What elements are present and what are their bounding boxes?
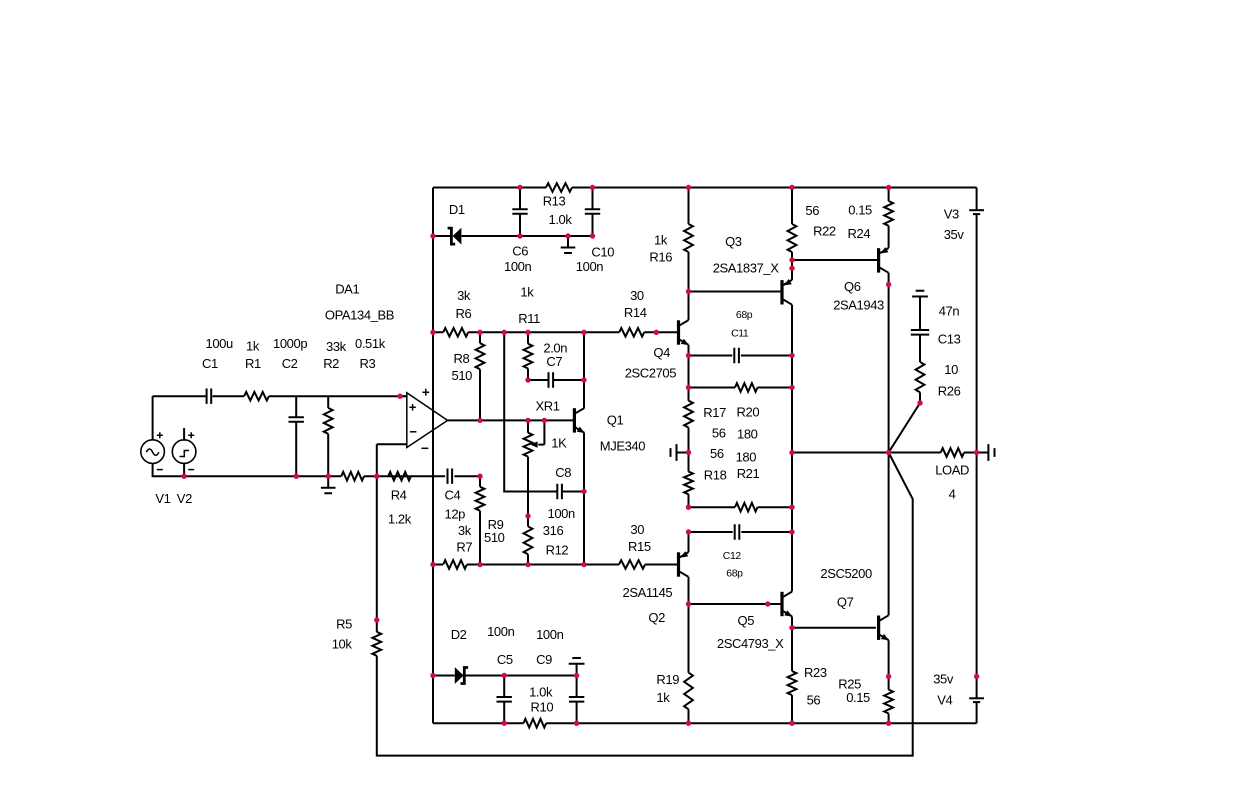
junction ground / D1 net — [565, 233, 570, 238]
junction C10 / D1 net — [590, 233, 595, 238]
wire: Q3 collector — [791, 305, 793, 356]
transistor Q4 2SC2705 — [625, 320, 689, 380]
svg-text:D1: D1 — [449, 202, 465, 217]
svg-text:35v: 35v — [933, 672, 954, 687]
junction right rail / V4 — [974, 674, 979, 679]
transistor Q5 2SC4793_X — [717, 592, 792, 651]
resistor R18 56 — [684, 446, 727, 507]
wire: op-amp output net — [480, 419, 573, 421]
svg-text:C12: C12 — [723, 550, 742, 562]
junction feedback divider — [374, 474, 379, 479]
resistor R13 1.0k — [543, 183, 573, 227]
resistor R23 56 — [788, 628, 827, 724]
svg-text:2SC5200: 2SC5200 — [820, 566, 872, 581]
resistor R3 0.51k — [341, 336, 385, 481]
wire: Q6 collector to output — [888, 273, 890, 453]
junction R5 top — [374, 617, 379, 622]
svg-text:100n: 100n — [536, 627, 563, 642]
wire: input signal top net — [153, 395, 407, 397]
svg-text:R4: R4 — [391, 487, 407, 502]
junction Q6 collector — [886, 282, 891, 287]
wire: Q4 collector — [688, 292, 690, 321]
junction driver column mid — [789, 450, 794, 455]
wire: Q2 emitter to C12 net — [688, 532, 690, 552]
junction C4 / R9 — [477, 474, 482, 479]
svg-text:10k: 10k — [332, 636, 353, 651]
svg-text:C5: C5 — [497, 652, 513, 667]
svg-text:180: 180 — [737, 426, 758, 441]
wire: Q6 base — [792, 259, 877, 261]
op-amp DA1 OPA134_BB — [325, 281, 480, 448]
svg-text:100n: 100n — [548, 506, 575, 521]
ground at D1/C6 net — [561, 236, 576, 253]
svg-text:100n: 100n — [504, 259, 531, 274]
resistor R15 30 — [619, 522, 651, 569]
svg-text:R21: R21 — [737, 466, 760, 481]
capacitor C7 2.0n — [528, 340, 584, 387]
svg-text:1K: 1K — [551, 435, 567, 450]
junction LOAD / right rail — [974, 450, 979, 455]
capacitor C5 100n — [487, 624, 514, 723]
junction XR1 / R12 — [525, 513, 530, 518]
svg-text:100n: 100n — [487, 624, 514, 639]
svg-text:R8: R8 — [454, 351, 470, 366]
svg-text:V1: V1 — [155, 491, 170, 506]
junction C2 return — [294, 474, 299, 479]
transistor Q6 2SA1943 — [833, 247, 888, 312]
svg-text:V4: V4 — [937, 693, 952, 708]
svg-text:R18: R18 — [704, 468, 727, 483]
wire: R5 to feedback divider node — [376, 476, 378, 620]
ground above C13 — [912, 291, 928, 297]
wire: Q7 collector to output — [888, 453, 890, 616]
wire: top +35V supply rail — [433, 187, 977, 189]
wire: D1 clamp net — [433, 235, 593, 237]
junction bias line / R8 — [477, 330, 482, 335]
svg-text:R2: R2 — [323, 356, 339, 371]
svg-text:R1: R1 — [245, 356, 261, 371]
resistor R17 56 — [684, 356, 726, 453]
junction R20 right — [789, 385, 794, 390]
junction mid rail / R12 — [525, 562, 530, 567]
svg-text:R20: R20 — [737, 404, 760, 419]
junction top rail / R22 — [789, 185, 794, 190]
junction C12 left — [686, 529, 691, 534]
svg-text:Q6: Q6 — [844, 279, 861, 294]
svg-text:R23: R23 — [804, 665, 827, 680]
junction Q5 base wire — [765, 601, 770, 606]
wire: right rail V3 to V4 — [976, 214, 978, 698]
source V1 sine — [141, 432, 171, 506]
junction bottom rail / R19 — [686, 721, 691, 726]
wire: Zobel branch to output node — [889, 403, 920, 453]
junction C8 / Q1 emitter — [581, 489, 586, 494]
junction C9 top — [574, 673, 579, 678]
svg-text:1k: 1k — [654, 233, 668, 248]
ground above C9 — [569, 658, 585, 664]
svg-text:R24: R24 — [848, 226, 871, 241]
junction bottom rail / R25 — [886, 721, 891, 726]
svg-text:0.15: 0.15 — [848, 203, 872, 218]
junction op-amp +input — [397, 394, 402, 399]
wire: Q2 collector to Q5 base — [689, 577, 781, 604]
junction R22 / Q6 base wire — [789, 257, 794, 262]
svg-text:33k: 33k — [326, 339, 347, 354]
svg-text:C8: C8 — [555, 465, 571, 480]
capacitor C12 68p — [689, 524, 793, 579]
svg-text:100n: 100n — [576, 259, 603, 274]
junction C11 right — [789, 353, 794, 358]
junction mid rail / Q1 emitter — [581, 562, 586, 567]
junction bottom rail / C5 — [502, 721, 507, 726]
svg-text:Q3: Q3 — [725, 234, 742, 249]
capacitor C9 100n — [536, 627, 584, 723]
transistor Q1 MJE340 — [573, 408, 645, 453]
junction Zobel R26 — [917, 400, 922, 405]
svg-text:30: 30 — [630, 288, 644, 303]
svg-text:0.51k: 0.51k — [355, 336, 386, 351]
wire: bottom mid rail R7/R15 — [433, 564, 677, 566]
junction R20 left — [686, 385, 691, 390]
junction Q4 base — [654, 330, 659, 335]
capacitor C10 100n — [576, 188, 614, 275]
svg-text:R16: R16 — [649, 250, 672, 265]
svg-text:R13: R13 — [543, 194, 566, 209]
capacitor C4 12p — [445, 469, 466, 522]
svg-text:1k: 1k — [656, 690, 670, 705]
svg-text:30: 30 — [630, 522, 644, 537]
wire: bias column C11 to C12 — [791, 356, 793, 533]
svg-text:1k: 1k — [520, 285, 534, 300]
svg-text:Q4: Q4 — [653, 345, 670, 360]
junction output node — [886, 450, 891, 455]
svg-text:Q7: Q7 — [837, 595, 854, 610]
resistor R24 0.15 — [848, 188, 894, 248]
resistor R4 1.2k — [388, 472, 412, 527]
junction bias line / Q1 branch — [581, 330, 586, 335]
diode D1 — [448, 202, 465, 245]
junction R17 / R18 tap — [686, 450, 691, 455]
svg-text:Q1: Q1 — [607, 413, 624, 428]
ground tap at R17/R18 — [671, 444, 689, 461]
wire: Q3 emitter to R22 — [791, 260, 793, 280]
junction C12 right / Q5 collector — [789, 529, 794, 534]
svg-text:1000p: 1000p — [273, 336, 307, 351]
resistor R16 1k — [649, 188, 693, 292]
svg-text:2SC2705: 2SC2705 — [625, 365, 677, 380]
junction bias line / R11 — [525, 330, 530, 335]
capacitor C1 100u — [202, 336, 233, 404]
junction bias line / C8 branch — [502, 330, 507, 335]
junction V2 return — [181, 474, 186, 479]
battery V3 35v — [944, 207, 984, 243]
svg-text:C9: C9 — [536, 652, 552, 667]
junction Q7 emitter / R25 — [886, 674, 891, 679]
resistor R7 3k — [443, 523, 472, 569]
svg-text:C6: C6 — [512, 243, 528, 258]
svg-text:C4: C4 — [445, 487, 461, 502]
wire: Q7 emitter — [888, 640, 890, 676]
capacitor C11 68p — [689, 309, 793, 363]
capacitor C6 100n — [504, 188, 531, 275]
wire: Q1 collector branch — [583, 332, 585, 408]
svg-text:10: 10 — [944, 362, 958, 377]
svg-text:3k: 3k — [458, 523, 472, 538]
svg-text:35v: 35v — [944, 227, 965, 242]
svg-text:Q2: Q2 — [648, 610, 665, 625]
wire: Q5 emitter — [791, 617, 793, 628]
svg-text:R15: R15 — [628, 539, 651, 554]
svg-text:47n: 47n — [939, 303, 960, 318]
wire: right rail top rail to V3 — [976, 188, 978, 211]
svg-text:C7: C7 — [546, 354, 562, 369]
svg-text:R6: R6 — [456, 306, 472, 321]
svg-text:510: 510 — [484, 530, 505, 545]
transistor Q3 2SA1837_X — [713, 234, 792, 305]
transistor Q2 2SA1145 — [623, 551, 689, 625]
wire: Q5 collector — [791, 532, 793, 592]
svg-text:56: 56 — [710, 446, 724, 461]
wire: V4 to bottom rail — [976, 702, 978, 723]
junction R2 / ground — [326, 474, 331, 479]
svg-text:100u: 100u — [206, 336, 233, 351]
resistor R10 1.0k — [524, 684, 554, 727]
wire: Q3 base — [689, 291, 781, 293]
svg-text:2SA1943: 2SA1943 — [833, 297, 884, 312]
svg-text:1k: 1k — [246, 339, 260, 354]
resistor R25 0.15 — [838, 677, 893, 724]
wire: feedback R4/C4 net — [377, 475, 480, 477]
junction top rail / R24 — [886, 185, 891, 190]
capacitor C2 1000p — [273, 336, 307, 476]
svg-text:2SA1837_X: 2SA1837_X — [713, 260, 780, 275]
ground right of LOAD — [977, 444, 995, 461]
svg-text:R5: R5 — [336, 617, 352, 632]
svg-text:Q5: Q5 — [738, 613, 755, 628]
svg-text:R17: R17 — [703, 405, 726, 420]
svg-text:1.0k: 1.0k — [529, 684, 553, 699]
transistor Q7 2SC5200 — [820, 566, 889, 640]
junction D2 / left rail — [430, 673, 435, 678]
svg-text:D2: D2 — [451, 627, 467, 642]
svg-text:R10: R10 — [531, 700, 554, 715]
svg-text:510: 510 — [452, 368, 473, 383]
svg-text:XR1: XR1 — [536, 399, 560, 414]
wire: bottom -35V supply rail — [433, 722, 977, 724]
wire: driver mid node to output — [792, 452, 889, 454]
wire: inverting input branch — [376, 444, 378, 476]
wire: V1 top lead — [152, 396, 154, 441]
svg-text:V2: V2 — [177, 491, 192, 506]
junction XR1 wiper — [542, 418, 547, 423]
junction top rail / R16 — [686, 185, 691, 190]
svg-text:2SA1145: 2SA1145 — [623, 585, 673, 600]
svg-text:R22: R22 — [813, 223, 836, 238]
svg-text:R11: R11 — [518, 311, 540, 326]
svg-text:C2: C2 — [282, 356, 298, 371]
junction Q4 emitter / C11 — [686, 353, 691, 358]
junction C6 / D1 net — [517, 233, 522, 238]
svg-text:C10: C10 — [591, 244, 614, 259]
svg-text:R26: R26 — [938, 383, 961, 398]
svg-text:R12: R12 — [546, 542, 569, 557]
wire: left vertical rail — [432, 188, 434, 724]
svg-text:R14: R14 — [624, 305, 647, 320]
capacitor C13 47n — [911, 297, 961, 363]
resistor R21 180 — [689, 450, 793, 512]
resistor R26 10 — [916, 362, 961, 403]
svg-text:V3: V3 — [944, 207, 959, 222]
junction C7 right / Q1 collector — [581, 377, 586, 382]
svg-text:68p: 68p — [736, 309, 753, 321]
svg-text:68p: 68p — [726, 568, 743, 580]
junction D2 / C5 — [502, 673, 507, 678]
svg-text:4: 4 — [949, 486, 956, 501]
svg-text:MJE340: MJE340 — [600, 438, 645, 453]
resistor R22 56 — [788, 188, 836, 261]
svg-text:C13: C13 — [938, 331, 961, 346]
junction bias line / left rail — [430, 330, 435, 335]
junction R18 / R21 — [686, 505, 691, 510]
svg-text:56: 56 — [807, 693, 821, 708]
svg-text:R19: R19 — [656, 672, 679, 687]
svg-text:2.0n: 2.0n — [543, 340, 567, 355]
svg-text:56: 56 — [712, 425, 726, 440]
resistor R8 510 — [452, 332, 485, 420]
svg-text:1.2k: 1.2k — [388, 512, 412, 527]
junction Q3 emitter — [789, 266, 794, 271]
svg-text:56: 56 — [805, 203, 819, 218]
potentiometer XR1 1K — [524, 399, 568, 516]
resistor R12 316 — [524, 516, 569, 565]
wire: C8 left branch — [504, 332, 556, 491]
resistor R1 1k — [244, 339, 269, 401]
wire: feedback loop output to R5 — [377, 453, 913, 756]
junction C7 left — [525, 377, 530, 382]
wire: source return / ground net — [153, 462, 377, 476]
junction D1 anode rail — [430, 233, 435, 238]
junction op-amp output — [477, 418, 482, 423]
svg-text:R3: R3 — [360, 356, 376, 371]
wire: bias line R6/R11/R14 — [433, 331, 677, 333]
svg-text:2SC4793_X: 2SC4793_X — [717, 636, 784, 651]
svg-text:R7: R7 — [456, 539, 472, 554]
ground at input divider — [321, 476, 336, 493]
junction mid rail / R9 — [477, 562, 482, 567]
junction R16 / Q3 base — [686, 289, 691, 294]
resistor R20 180 — [689, 383, 793, 441]
junction R21 right — [789, 505, 794, 510]
svg-text:0.15: 0.15 — [846, 690, 870, 705]
diode D2 — [433, 627, 577, 684]
wire: Q7 base — [792, 627, 876, 629]
resistor R11 1k — [518, 285, 540, 381]
junction top rail / C10 — [590, 185, 595, 190]
resistor R2 33k — [323, 339, 346, 476]
svg-text:C11: C11 — [731, 328, 749, 340]
svg-text:1.0k: 1.0k — [549, 212, 573, 227]
svg-text:C1: C1 — [202, 356, 218, 371]
svg-text:3k: 3k — [457, 288, 471, 303]
capacitor C8 100n — [548, 465, 585, 521]
svg-text:OPA134_BB: OPA134_BB — [325, 307, 394, 322]
svg-text:12p: 12p — [445, 507, 466, 522]
resistor R9 510 — [476, 476, 505, 564]
resistor LOAD 4 — [889, 448, 977, 501]
resistor R6 3k — [443, 288, 471, 337]
svg-text:DA1: DA1 — [335, 281, 359, 296]
source V2 pulse — [172, 428, 196, 506]
svg-text:316: 316 — [543, 523, 564, 538]
resistor R5 10k — [332, 617, 382, 656]
resistor R19 1k — [656, 604, 693, 723]
svg-text:180: 180 — [736, 450, 757, 465]
junction bottom rail / R23 — [789, 721, 794, 726]
junction mid rail / left rail — [430, 562, 435, 567]
wire: Q1 emitter net — [583, 433, 585, 565]
junction Q5 emitter / R23 — [789, 625, 794, 630]
junction top rail / C6 — [517, 185, 522, 190]
wire: Q4 emitter — [688, 345, 690, 356]
resistor R14 30 — [619, 288, 647, 337]
svg-text:LOAD: LOAD — [935, 463, 969, 478]
junction Q2 collector / R19 — [686, 601, 691, 606]
junction bottom rail / C9 — [574, 721, 579, 726]
junction XR1 top — [525, 418, 530, 423]
battery V4 35v — [933, 672, 984, 708]
